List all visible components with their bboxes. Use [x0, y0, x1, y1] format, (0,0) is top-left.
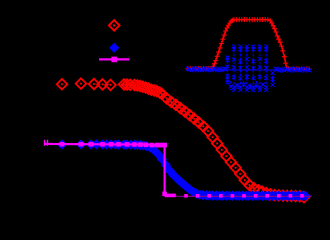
inset blue baseline line: [188, 69, 310, 71]
legend red open diamond: [109, 20, 120, 31]
inset blue oscillation columns: [226, 44, 275, 92]
legend blue filled diamond: [109, 43, 119, 53]
inset red pulse line: [188, 20, 310, 69]
magenta series flat line segment (drawn over blue): [44, 144, 164, 194]
blue floor band redraw over magenta floor line: [165, 166, 311, 201]
legend magenta line with square marker: [99, 57, 129, 63]
magenta floor square markers: [162, 192, 304, 198]
magenta flat-region square markers: [60, 142, 167, 148]
magenta floor line under blue band: [165, 195, 172, 197]
blue series markers (main plot): [57, 139, 311, 201]
red series T2 markers (main plot): [57, 78, 310, 202]
magenta series first point x-error bar caps: [45, 140, 48, 146]
blue series connecting line (main plot): [62, 144, 312, 195]
magenta transition vertical drop line: [164, 145, 166, 194]
inset red pulse + markers: [186, 17, 312, 71]
dark magenta line along floor: [166, 195, 311, 197]
inset blue baseline x markers: [186, 67, 312, 73]
